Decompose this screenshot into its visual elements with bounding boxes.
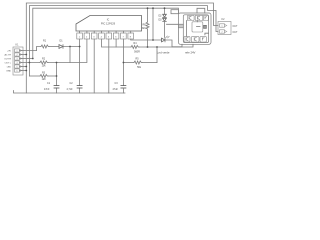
svg-text:1k8: 1k8 [42,78,47,81]
svg-text:OUT R: OUT R [4,58,11,60]
transistor Q2 [197,16,199,19]
svg-text:+9V: +9V [7,50,11,52]
wire pin7 drop to C3 [122,39,124,86]
transistor Q4 [185,38,187,41]
module dark box [204,25,207,28]
wire LED to module [165,40,182,47]
module center box [192,22,203,32]
wire C1 riser [56,63,58,86]
resistor R1 [41,45,49,48]
IC pin boxes [77,33,134,39]
svg-text:PIC 12F629: PIC 12F629 [101,22,116,26]
connector K2 pin numbers [221,26,223,34]
wire pin1 drop [79,39,81,47]
transistor Q6 [202,38,204,41]
small box above module [171,10,178,14]
connector K1 wires [20,50,37,52]
wire x157 riser [156,47,158,63]
relay module inner box [183,15,208,43]
connector K2 box [218,22,231,35]
wire R4 row right [139,44,193,47]
svg-text:GND: GND [6,70,11,72]
svg-text:rele 24V: rele 24V [185,51,196,55]
module left pins [167,23,184,25]
wire bus line 1 [26,3,218,93]
module top box left [187,15,194,20]
connector K1 pin numbers [16,50,18,72]
module bottom box mid [191,36,199,42]
transistor Q3 [204,17,206,20]
svg-text:Led verde: Led verde [157,51,170,55]
svg-text:OUT R: OUT R [233,26,239,28]
resistor R4 [131,46,139,49]
svg-text:LED: LED [7,66,12,68]
connector K1 left labels [4,50,12,72]
module top box mid [195,15,203,20]
svg-text:OUT L: OUT L [233,32,239,34]
junction dots [25,7,165,77]
svg-text:IC: IC [107,18,110,21]
resistor R8 vertical [147,8,149,22]
capacitor C3 [121,85,126,87]
IC U1 body [76,16,142,32]
wire pin6 drop to R4 row [115,39,117,47]
svg-text:47uF: 47uF [113,88,119,91]
capacitor C1 [54,85,59,87]
svg-text:47nF: 47nF [44,88,50,91]
svg-text:OUT L: OUT L [5,62,12,64]
transistor Q1 [188,16,190,19]
svg-text:4,7nF: 4,7nF [67,88,74,91]
connector K1 pin arrows [20,50,22,72]
wire bus line 2 [29,6,218,76]
wire R1 D1 row [37,47,42,51]
svg-text:3k3: 3k3 [142,27,147,30]
text labels [4,14,240,91]
relay module outer box [178,13,211,44]
wire junction drop x70 [69,47,71,63]
wire pin3 drop to rail [93,39,95,93]
module top box right [203,15,208,20]
resistor R5 [134,61,142,64]
LED D4 [162,38,166,42]
wire pin4 drop to R4 row [102,39,132,47]
wire x153 drop from bus [152,8,154,40]
module internal wires [197,26,201,28]
wire pin8 to right [131,39,162,40]
pin numbers [79,36,132,38]
diode D2 column [164,8,166,14]
svg-text:560R: 560R [134,50,140,53]
connector K1 box [13,47,23,75]
wire pin5 drop to rail [108,39,110,93]
connector K1 pins [15,49,20,72]
module bottom box left [184,36,190,42]
wire bus line 3 [33,8,179,58]
svg-text:AC TH: AC TH [4,53,11,56]
transistor Q5 [193,38,195,41]
resistor R2 [40,61,48,64]
diode D1 [59,45,63,49]
module top pin loop [197,8,205,13]
wire pin2 drop to R2 row [48,39,87,63]
IC pin stems [80,31,131,33]
capacitor C2 [79,47,81,86]
connector K2 pin arrows [225,25,227,33]
resistor R3 [40,75,48,78]
module bottom box right [200,36,206,42]
wire bottom rail [14,91,126,94]
